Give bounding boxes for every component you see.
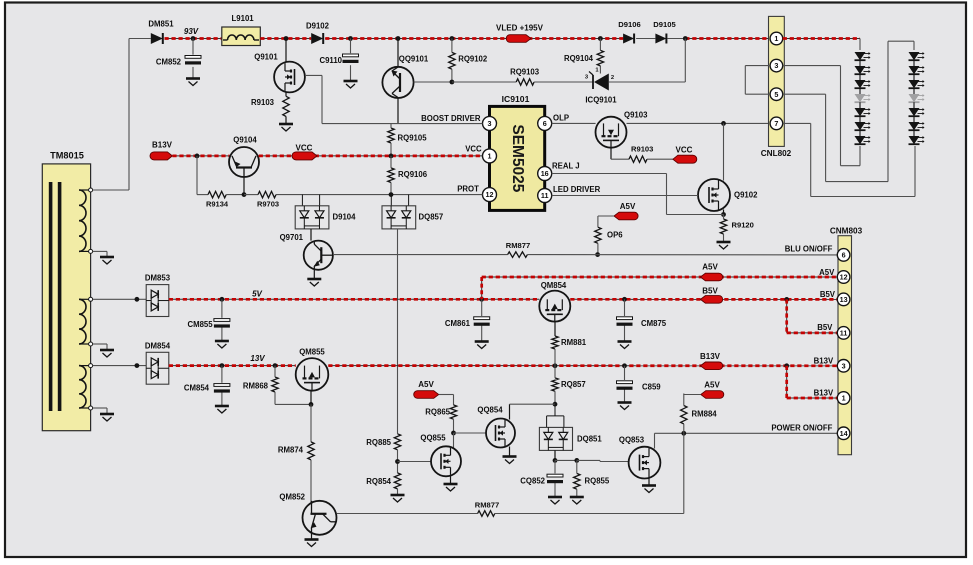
ground RQ854 xyxy=(391,495,405,502)
B13V arrow xyxy=(150,152,172,160)
resistor RQ9103 xyxy=(516,79,534,85)
svg-text:L9101: L9101 xyxy=(232,14,255,23)
node A5V CM861 junction xyxy=(479,297,484,302)
Q9104 label xyxy=(233,136,257,145)
svg-text:1: 1 xyxy=(774,34,778,43)
LED string1 D4 xyxy=(855,94,871,102)
svg-text:Q9103: Q9103 xyxy=(624,111,648,120)
ground C859 xyxy=(618,403,632,410)
svg-text:93V: 93V xyxy=(184,27,199,36)
POWER ON/OFF label xyxy=(771,424,832,433)
CM861 label xyxy=(445,319,471,328)
CNL802 pin 3 xyxy=(770,59,783,72)
svg-text:R9103: R9103 xyxy=(631,145,653,154)
wire Q9101 source xyxy=(285,92,287,96)
wire R9134 to Q9104 base xyxy=(226,194,244,196)
node B5V jumper junction xyxy=(784,297,789,302)
resistor OP6 xyxy=(595,227,601,243)
wire REAL J net xyxy=(552,174,724,215)
B5V pin label xyxy=(820,290,836,299)
node B13V jumper junction xyxy=(784,363,789,368)
wire DQ851 top pins xyxy=(547,404,564,427)
rectifier DM853 xyxy=(146,285,169,317)
R9134 label xyxy=(206,200,229,209)
RM881 label xyxy=(561,338,587,347)
svg-text:PROT: PROT xyxy=(457,184,479,193)
RQ885 label xyxy=(366,438,391,447)
dual diode D9104 xyxy=(295,206,329,229)
svg-text:TM8015: TM8015 xyxy=(50,151,84,161)
wire pin7 to Q9102 drain xyxy=(723,123,725,180)
diode DM851 xyxy=(151,33,163,44)
ground tap6 xyxy=(100,414,114,421)
svg-text:3: 3 xyxy=(488,119,492,128)
RQ9102 label xyxy=(458,55,488,64)
CQ852 label xyxy=(520,477,545,486)
transistor QQ9101 xyxy=(382,67,413,98)
A5V arrow CNM xyxy=(700,273,722,281)
wire QQ9101 base xyxy=(414,81,452,83)
node CM854 junction xyxy=(220,363,225,368)
svg-text:RQ9103: RQ9103 xyxy=(510,68,540,77)
resistor RM868 xyxy=(272,366,278,405)
node OP6 junction xyxy=(595,252,600,257)
capacitor C9110 xyxy=(343,54,359,63)
wire A5V branch xyxy=(481,277,483,299)
svg-text:RM877: RM877 xyxy=(475,501,499,510)
wire Q9102 source xyxy=(723,210,725,215)
A5V label CNM xyxy=(702,263,718,272)
ground RQ855 xyxy=(570,497,584,504)
LED string1 D2 xyxy=(855,66,871,74)
Q9102 label xyxy=(734,191,758,200)
node RQ9105 RQ9106 junction xyxy=(389,154,394,159)
A5V label OP6 xyxy=(620,202,636,211)
CNM803 pin 14 xyxy=(837,427,850,440)
D9106 label xyxy=(618,20,640,29)
svg-text:11: 11 xyxy=(840,329,848,338)
resistor RQ854 xyxy=(394,473,400,489)
wire A5V net xyxy=(482,276,838,278)
svg-text:Q9104: Q9104 xyxy=(233,136,257,145)
ground CM852 xyxy=(186,79,200,86)
wire R9103 to ground xyxy=(285,116,287,124)
RM877 lower label xyxy=(475,501,499,510)
VCC pin label xyxy=(465,145,482,154)
ICQ9101 pin3 number xyxy=(585,75,589,81)
diode D9102 xyxy=(311,33,323,44)
CNL802 pin 1 xyxy=(770,32,783,45)
svg-text:DM851: DM851 xyxy=(148,20,174,29)
node RM884 junction xyxy=(681,431,686,436)
IC9101 part number SEM5025 xyxy=(509,124,526,192)
CM854 label xyxy=(184,384,210,393)
wire LED string1 segment xyxy=(859,102,861,108)
wire ICQ9101 pin2 xyxy=(609,39,686,83)
REAL J label xyxy=(552,161,580,170)
IC9101 label xyxy=(502,94,530,104)
VLED +195V label xyxy=(496,24,544,33)
wire RM868 to gate node xyxy=(275,403,311,405)
RQ9106 label xyxy=(398,170,428,179)
A5V label RM884 xyxy=(704,381,720,390)
svg-text:RQ855: RQ855 xyxy=(585,477,610,486)
B13V arrow CNM xyxy=(700,362,722,370)
B13V pin label xyxy=(814,357,834,366)
LED string2 D2 xyxy=(909,66,925,74)
wire LED string2 segment xyxy=(913,102,915,108)
wire RM877 to POWER xyxy=(495,433,684,513)
ground CM855 xyxy=(215,341,229,348)
transformer TM8015 xyxy=(42,164,90,431)
B5V pin11 label xyxy=(817,323,833,332)
wire RQ854 to ground xyxy=(397,489,399,495)
svg-text:QQ853: QQ853 xyxy=(619,436,645,445)
BLU ON/OFF label xyxy=(785,245,833,254)
svg-text:3: 3 xyxy=(774,61,778,70)
svg-text:7: 7 xyxy=(774,119,778,128)
Q9101 label xyxy=(254,53,278,62)
wire RQ865 bottom xyxy=(453,419,455,433)
wire 13V rail left xyxy=(169,365,296,367)
RM884 label xyxy=(692,410,718,419)
svg-text:A5V: A5V xyxy=(819,268,835,277)
DQ857 label xyxy=(419,213,444,222)
wire RM881 to rail xyxy=(554,349,556,366)
VCC arrow xyxy=(292,152,317,160)
resistor RM877 lower xyxy=(478,511,495,517)
wire BLU ONOFF right xyxy=(527,254,837,256)
transformer terminal xyxy=(89,297,93,301)
transistor QM855 xyxy=(296,358,329,391)
svg-text:Q9102: Q9102 xyxy=(734,191,758,200)
wire LED string2 segment xyxy=(913,74,915,80)
capacitor CQ852 xyxy=(547,474,563,483)
wire QQ854 drain xyxy=(510,404,556,419)
wire PROT net xyxy=(276,194,483,196)
QM852 label xyxy=(279,493,305,502)
node RQ9104 junction xyxy=(598,36,603,41)
R9103 lower label xyxy=(631,145,653,154)
BOOST DRIVER label xyxy=(421,114,481,123)
QQ9101 label xyxy=(399,55,429,64)
ground QQ854 xyxy=(503,457,517,464)
svg-text:RM884: RM884 xyxy=(692,410,718,419)
PROT label xyxy=(457,184,479,193)
QQ855 label xyxy=(420,434,446,443)
transformer winding W2 xyxy=(79,299,91,344)
ground tap2 xyxy=(100,257,114,264)
R9103 label xyxy=(251,98,275,107)
resistor RQ9102 xyxy=(449,39,455,83)
ground CM875 xyxy=(618,342,632,349)
ground QM852 xyxy=(305,540,319,547)
RQ9105 label xyxy=(398,134,428,143)
resistor RQ865 xyxy=(450,405,456,419)
wire LED string1 segment xyxy=(859,60,861,66)
A5V arrow RQ865 xyxy=(414,391,439,399)
VLED arrow xyxy=(506,35,531,43)
resistor R9134 xyxy=(208,191,226,197)
svg-text:Q9101: Q9101 xyxy=(254,53,278,62)
wire QM854 gate stem xyxy=(554,322,556,336)
wire Q9101 drain xyxy=(285,39,287,63)
svg-text:RM877: RM877 xyxy=(506,241,530,250)
svg-text:CM854: CM854 xyxy=(184,384,210,393)
resistor RM874 xyxy=(308,442,314,460)
svg-text:2: 2 xyxy=(611,75,614,81)
CNM803 pin 12 xyxy=(837,271,850,284)
wire Q9103 to CNL pin7 xyxy=(627,122,771,124)
CNM803 pin 1 xyxy=(837,392,850,405)
svg-text:QM852: QM852 xyxy=(279,493,305,502)
svg-text:RM881: RM881 xyxy=(561,338,587,347)
LED DRIVER label xyxy=(553,185,601,194)
D9102 label xyxy=(306,22,330,31)
svg-text:B5V: B5V xyxy=(820,290,836,299)
capacitor CM861 xyxy=(474,317,490,326)
wire to QQ853 gate xyxy=(577,460,629,461)
CNM803 pin 6 xyxy=(837,249,850,262)
dual diode DQ857 xyxy=(382,206,416,229)
svg-text:DQ851: DQ851 xyxy=(577,435,602,444)
wire pin3 jumper left xyxy=(745,66,770,95)
wire CM854 stem xyxy=(221,366,223,406)
wire CQ852 stem xyxy=(554,460,556,497)
transformer winding W3 xyxy=(79,366,91,408)
wire 13V rail right xyxy=(328,365,837,367)
svg-text:1: 1 xyxy=(488,152,492,161)
CM852 label xyxy=(156,58,182,67)
dual diode DQ851 xyxy=(539,427,572,450)
wire QM852 emitter xyxy=(311,534,313,540)
svg-text:CM852: CM852 xyxy=(156,58,182,67)
wire LED string1 segment xyxy=(859,130,861,136)
wire RQ9103 to ICQ9101 xyxy=(534,81,593,83)
svg-text:DQ857: DQ857 xyxy=(419,213,444,222)
CM875 label xyxy=(641,319,667,328)
B5V arrow CNM xyxy=(700,296,722,304)
node C859 junction xyxy=(622,363,627,368)
wire QQ9101 emitter top xyxy=(397,39,399,67)
svg-text:B5V: B5V xyxy=(702,287,718,296)
connector CNM803 body xyxy=(838,236,852,455)
RQ854 label xyxy=(366,477,391,486)
resistor RM884 xyxy=(681,394,687,434)
rectifier DM854 xyxy=(146,352,169,384)
node QM855 gate junction xyxy=(309,402,314,407)
wire OP6 top xyxy=(598,216,614,227)
svg-text:CQ852: CQ852 xyxy=(520,477,545,486)
RQ9103 label xyxy=(510,68,540,77)
svg-text:DM854: DM854 xyxy=(145,341,171,350)
wire D9104 pins xyxy=(302,195,319,206)
resistor R9120 xyxy=(720,215,726,243)
node 13V label xyxy=(250,354,265,363)
svg-text:DM853: DM853 xyxy=(145,274,171,283)
svg-text:BOOST DRIVER: BOOST DRIVER xyxy=(421,114,481,123)
diode D9105 xyxy=(655,34,666,44)
QQ853 label xyxy=(619,436,645,445)
wire C859 stem xyxy=(624,366,626,403)
node pin7 junction xyxy=(721,121,726,126)
wire LED string1 segment xyxy=(859,74,861,80)
IC9101 pin 1 xyxy=(483,149,497,163)
wire A5V to RQ865 xyxy=(439,395,454,405)
ground QQ855 xyxy=(444,484,458,491)
svg-text:RQ854: RQ854 xyxy=(366,477,391,486)
wire DQ857 pins xyxy=(391,195,408,206)
svg-text:VCC: VCC xyxy=(296,144,313,153)
transformer terminal xyxy=(89,406,93,410)
IC9101 pin 16 xyxy=(538,167,552,181)
svg-text:R9103: R9103 xyxy=(251,98,275,107)
svg-text:RQ885: RQ885 xyxy=(366,438,391,447)
wire pin3 to LED col1 return xyxy=(783,66,860,166)
RM874 label xyxy=(278,446,304,455)
node DM854 input xyxy=(135,363,140,368)
wire Q9101 gate xyxy=(305,75,322,123)
CNM803 pin 13 xyxy=(837,293,850,306)
B5V label CNM xyxy=(702,287,718,296)
svg-text:R9120: R9120 xyxy=(732,221,754,230)
CNL802 label xyxy=(761,149,792,158)
wire gate node down xyxy=(310,404,312,442)
B13V label CNM xyxy=(700,352,721,361)
svg-text:B13V: B13V xyxy=(814,357,834,366)
QQ854 label xyxy=(477,406,503,415)
node 5V label xyxy=(252,290,262,299)
C9110 label xyxy=(319,56,342,65)
D9104 label xyxy=(333,213,357,222)
wire D9104 to Q9701 xyxy=(310,229,312,241)
LED string2 D7 xyxy=(909,136,925,144)
capacitor CM875 xyxy=(617,317,633,326)
A5V label RQ865 xyxy=(418,380,434,389)
svg-text:11: 11 xyxy=(541,191,549,200)
svg-text:CNM803: CNM803 xyxy=(830,227,863,236)
wire POWER ONOFF xyxy=(655,432,838,434)
ground C9110 xyxy=(344,81,358,88)
L9101 label xyxy=(232,14,255,23)
svg-text:QM854: QM854 xyxy=(541,281,567,290)
ground tap4 xyxy=(100,350,114,357)
transistor Q9102 xyxy=(698,179,730,211)
RQ857 label xyxy=(561,380,586,389)
IC9101 pin 6 xyxy=(538,116,552,130)
CNL802 pin 5 xyxy=(770,88,783,101)
wire LED string2 segment xyxy=(913,60,915,66)
svg-text:POWER ON/OFF: POWER ON/OFF xyxy=(771,424,832,433)
ground CM861 xyxy=(475,342,489,349)
svg-text:14: 14 xyxy=(840,429,848,438)
wire RQ9104 stem xyxy=(599,39,601,74)
transistor Q9101 xyxy=(274,62,305,93)
wire pin5 to LED col2 feed xyxy=(783,41,914,181)
svg-text:RQ865: RQ865 xyxy=(425,408,450,417)
resistor RQ9105 xyxy=(388,124,394,156)
transistor QQ853 xyxy=(629,447,661,479)
inductor L9101 xyxy=(222,27,260,46)
R9703 label xyxy=(257,200,279,209)
svg-text:12: 12 xyxy=(840,273,848,282)
node Q9102 source junction xyxy=(721,212,726,217)
CNM803 pin 11 xyxy=(837,327,850,340)
svg-text:REAL J: REAL J xyxy=(552,161,580,170)
CM855 label xyxy=(187,320,213,329)
LED string2 D1 xyxy=(909,52,925,60)
wire tap3 to DM853 xyxy=(93,298,147,300)
svg-text:1: 1 xyxy=(842,394,846,403)
VCC label lower xyxy=(676,146,693,155)
RQ855 label xyxy=(585,477,610,486)
ground R9120 xyxy=(717,242,731,249)
wire QQ855 source xyxy=(450,476,452,485)
D9105 label xyxy=(653,20,676,29)
RM877 upper label xyxy=(506,241,530,250)
transistor QM854 xyxy=(539,291,570,322)
svg-text:5: 5 xyxy=(774,90,778,99)
node QQ9101 base junction xyxy=(450,80,455,85)
svg-text:IC9101: IC9101 xyxy=(502,94,530,104)
wire BOOST DRIVER net xyxy=(322,123,483,125)
DM853 label xyxy=(145,274,171,283)
node C9110 junction xyxy=(348,36,353,41)
RQ9104 label xyxy=(564,54,594,63)
svg-text:A5V: A5V xyxy=(620,202,636,211)
node R9134 junction xyxy=(195,154,200,159)
svg-text:12: 12 xyxy=(486,190,494,199)
svg-text:Q9701: Q9701 xyxy=(280,233,304,242)
svg-text:D9105: D9105 xyxy=(653,20,676,29)
transistor Q9103 xyxy=(596,117,627,148)
wire QQ855 drain xyxy=(453,433,455,448)
op-amp U1 IC9101 body xyxy=(490,106,545,210)
wire pin7 to LED col2 return xyxy=(783,123,915,196)
node CM852 junction xyxy=(191,36,196,41)
wire 5V rail right xyxy=(570,298,837,300)
wire QM852 collector xyxy=(337,513,478,515)
connector CNL802 body xyxy=(769,16,785,146)
wire Q9103 source xyxy=(611,148,629,160)
CNM803 label xyxy=(830,227,863,236)
wire CM855 stem xyxy=(221,299,223,341)
node Q9101 drain junction xyxy=(284,36,289,41)
LED string1 D3 xyxy=(855,80,871,88)
transformer winding W1 xyxy=(79,190,91,251)
wire B13V jumper xyxy=(787,366,838,398)
svg-text:D9102: D9102 xyxy=(306,22,330,31)
node CQ852 junction xyxy=(553,458,558,463)
ground CM854 xyxy=(215,406,229,413)
resistor R9703 xyxy=(258,191,276,197)
transformer terminal xyxy=(89,342,93,346)
resistor R9103 xyxy=(283,96,289,116)
svg-text:B13V: B13V xyxy=(700,352,721,361)
svg-text:RM868: RM868 xyxy=(243,382,269,391)
svg-text:D9104: D9104 xyxy=(333,213,357,222)
node RM868 junction xyxy=(273,363,278,368)
ICQ9101 pin2 number xyxy=(611,75,614,81)
wire VCC net to IC pin1 xyxy=(259,155,483,157)
svg-text:LED DRIVER: LED DRIVER xyxy=(553,185,601,194)
wire DQ857 down vertical xyxy=(397,229,399,434)
wire tap4 stub xyxy=(93,344,107,350)
wire 93V net xyxy=(165,38,222,40)
C859 label xyxy=(642,383,661,392)
wire Q9701 emitter xyxy=(313,269,315,279)
wire CM875 stem xyxy=(624,299,626,341)
